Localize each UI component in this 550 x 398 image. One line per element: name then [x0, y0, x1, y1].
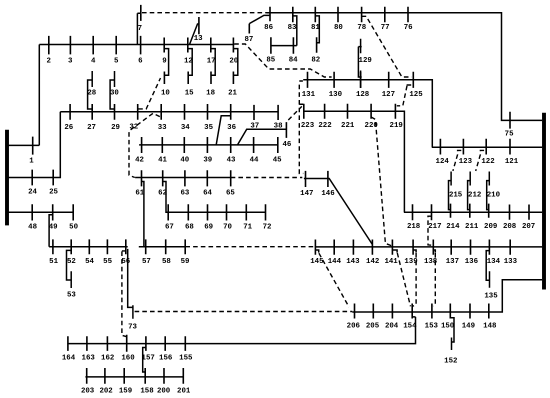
svg-text:157: 157 [142, 355, 155, 363]
svg-text:20: 20 [229, 57, 238, 65]
svg-text:76: 76 [404, 24, 413, 32]
svg-text:164: 164 [62, 355, 76, 363]
svg-text:208: 208 [503, 223, 517, 231]
svg-text:50: 50 [69, 224, 78, 232]
svg-text:135: 135 [484, 293, 498, 301]
svg-text:128: 128 [356, 91, 370, 99]
svg-text:124: 124 [436, 158, 450, 166]
svg-text:72: 72 [263, 224, 272, 232]
svg-text:75: 75 [505, 131, 514, 139]
svg-text:25: 25 [49, 188, 58, 196]
svg-text:43: 43 [227, 157, 236, 165]
svg-text:220: 220 [365, 122, 379, 130]
svg-text:24: 24 [28, 188, 37, 196]
svg-text:49: 49 [49, 224, 58, 232]
svg-text:70: 70 [223, 224, 232, 232]
svg-text:7: 7 [138, 25, 142, 33]
svg-text:203: 203 [81, 387, 95, 395]
svg-text:57: 57 [142, 258, 151, 266]
svg-text:156: 156 [159, 355, 173, 363]
svg-text:32: 32 [129, 123, 138, 131]
svg-text:42: 42 [135, 157, 144, 165]
svg-text:160: 160 [121, 355, 135, 363]
svg-text:81: 81 [311, 24, 320, 32]
svg-text:35: 35 [204, 124, 213, 132]
svg-text:13: 13 [194, 35, 203, 43]
svg-text:207: 207 [522, 223, 535, 231]
svg-text:222: 222 [318, 122, 331, 130]
svg-text:215: 215 [449, 192, 463, 200]
svg-text:148: 148 [483, 323, 497, 331]
svg-text:206: 206 [347, 323, 361, 331]
svg-text:209: 209 [484, 223, 497, 231]
svg-text:1: 1 [29, 158, 34, 166]
svg-text:123: 123 [459, 158, 473, 166]
svg-text:133: 133 [504, 258, 518, 266]
svg-text:146: 146 [321, 190, 335, 198]
svg-text:137: 137 [446, 258, 459, 266]
svg-text:82: 82 [311, 56, 320, 64]
svg-text:219: 219 [390, 122, 403, 130]
svg-text:73: 73 [128, 323, 137, 331]
svg-text:217: 217 [428, 223, 441, 231]
svg-text:65: 65 [226, 190, 235, 198]
svg-text:139: 139 [404, 258, 417, 266]
svg-text:55: 55 [103, 258, 112, 266]
svg-text:12: 12 [184, 57, 193, 65]
svg-text:56: 56 [121, 258, 130, 266]
svg-text:210: 210 [487, 192, 501, 200]
svg-text:64: 64 [203, 190, 212, 198]
svg-text:77: 77 [381, 24, 390, 32]
svg-text:67: 67 [165, 224, 174, 232]
svg-text:163: 163 [82, 355, 96, 363]
svg-text:212: 212 [468, 192, 481, 200]
svg-text:46: 46 [282, 141, 291, 149]
svg-text:158: 158 [140, 387, 154, 395]
svg-text:54: 54 [85, 258, 94, 266]
svg-text:138: 138 [424, 258, 438, 266]
svg-text:29: 29 [111, 124, 120, 132]
svg-text:159: 159 [119, 387, 132, 395]
svg-text:129: 129 [359, 57, 372, 65]
svg-text:3: 3 [68, 57, 73, 65]
svg-text:143: 143 [346, 258, 360, 266]
svg-text:221: 221 [341, 122, 355, 130]
svg-text:58: 58 [162, 258, 171, 266]
svg-text:18: 18 [206, 89, 215, 97]
svg-text:152: 152 [444, 357, 457, 365]
svg-text:38: 38 [274, 123, 283, 131]
svg-text:53: 53 [67, 291, 76, 299]
svg-text:150: 150 [441, 323, 455, 331]
svg-text:68: 68 [185, 224, 194, 232]
svg-text:59: 59 [181, 258, 190, 266]
svg-text:155: 155 [179, 355, 193, 363]
svg-text:39: 39 [203, 157, 212, 165]
svg-text:45: 45 [273, 157, 282, 165]
svg-text:78: 78 [357, 24, 366, 32]
svg-text:6: 6 [138, 57, 143, 65]
svg-text:125: 125 [409, 91, 423, 99]
svg-text:141: 141 [384, 258, 398, 266]
svg-text:9: 9 [162, 57, 166, 65]
svg-text:15: 15 [185, 89, 194, 97]
svg-text:71: 71 [243, 224, 252, 232]
svg-text:21: 21 [228, 89, 237, 97]
svg-text:204: 204 [385, 323, 399, 331]
svg-text:223: 223 [301, 122, 315, 130]
svg-text:211: 211 [465, 223, 479, 231]
svg-text:86: 86 [264, 24, 273, 32]
svg-text:80: 80 [334, 24, 343, 32]
svg-text:63: 63 [180, 190, 189, 198]
svg-text:37: 37 [250, 123, 259, 131]
svg-text:27: 27 [87, 124, 96, 132]
svg-text:149: 149 [462, 323, 475, 331]
svg-text:30: 30 [110, 90, 119, 98]
svg-text:34: 34 [181, 124, 190, 132]
svg-text:83: 83 [288, 24, 297, 32]
svg-text:85: 85 [266, 56, 275, 64]
svg-text:121: 121 [505, 158, 519, 166]
svg-text:51: 51 [49, 258, 58, 266]
svg-text:202: 202 [99, 387, 112, 395]
svg-text:48: 48 [28, 224, 37, 232]
svg-text:28: 28 [87, 90, 96, 98]
svg-text:153: 153 [425, 323, 439, 331]
svg-text:145: 145 [310, 258, 324, 266]
svg-text:33: 33 [158, 124, 167, 132]
svg-text:136: 136 [465, 258, 479, 266]
svg-text:40: 40 [180, 157, 189, 165]
svg-text:41: 41 [158, 157, 167, 165]
svg-text:44: 44 [250, 157, 259, 165]
svg-text:69: 69 [204, 224, 213, 232]
svg-text:162: 162 [101, 355, 114, 363]
svg-text:84: 84 [289, 56, 298, 64]
svg-text:154: 154 [403, 323, 417, 331]
svg-text:10: 10 [161, 89, 170, 97]
svg-text:17: 17 [207, 57, 216, 65]
svg-text:201: 201 [177, 387, 191, 395]
svg-text:205: 205 [366, 323, 380, 331]
svg-text:36: 36 [227, 124, 236, 132]
svg-text:200: 200 [157, 387, 171, 395]
svg-text:134: 134 [487, 258, 501, 266]
svg-text:130: 130 [329, 91, 343, 99]
svg-text:122: 122 [481, 158, 494, 166]
svg-text:5: 5 [114, 57, 119, 65]
svg-text:131: 131 [302, 91, 316, 99]
svg-text:87: 87 [244, 36, 253, 44]
svg-text:52: 52 [67, 258, 76, 266]
svg-text:26: 26 [64, 124, 73, 132]
svg-text:218: 218 [407, 223, 421, 231]
svg-text:147: 147 [300, 190, 313, 198]
svg-text:62: 62 [158, 190, 167, 198]
svg-text:142: 142 [366, 258, 379, 266]
svg-text:214: 214 [446, 223, 460, 231]
svg-text:4: 4 [91, 57, 96, 65]
svg-text:61: 61 [135, 190, 144, 198]
svg-text:127: 127 [382, 91, 395, 99]
svg-text:144: 144 [328, 258, 342, 266]
svg-text:2: 2 [46, 57, 50, 65]
